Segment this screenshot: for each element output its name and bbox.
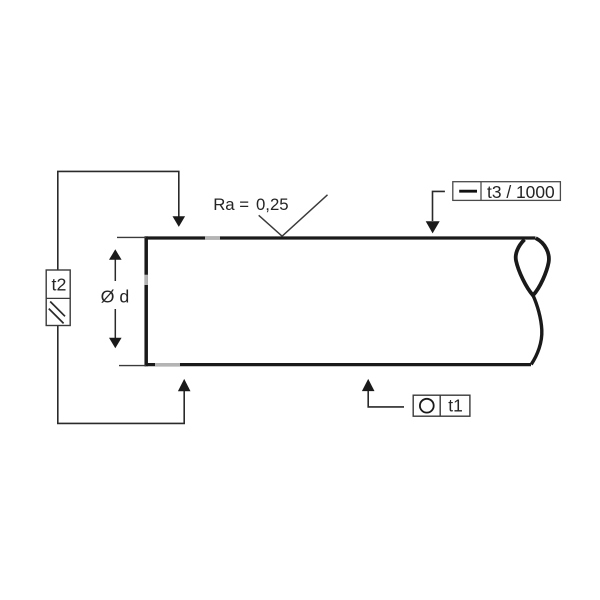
t1 circularity symbol <box>420 399 434 413</box>
t1 leader: up from frame level to bottom surface <box>368 391 404 407</box>
shaft top edge watermark gap <box>205 236 220 239</box>
t2 leader upper arrow <box>173 216 186 227</box>
svg-text:Ra = 0,25: Ra = 0,25 <box>213 195 288 214</box>
break line teardrop loop <box>516 238 549 295</box>
surface roughness symbol right leg <box>282 195 327 236</box>
diameter dimension line upper segment <box>114 259 116 282</box>
surface roughness symbol left leg <box>259 215 282 236</box>
t3 leader: from frame left, down to top surface <box>433 191 445 221</box>
shaft bottom edge <box>145 363 532 366</box>
svg-text:Ø d: Ø d <box>101 287 130 307</box>
svg-text:t2: t2 <box>52 274 67 294</box>
t1 frame divider <box>439 395 441 416</box>
t2 feature control frame box <box>46 270 70 326</box>
shaft bottom edge watermark gap <box>155 363 180 366</box>
t2 leader lower arrow <box>178 379 191 391</box>
extension line top (left of shaft) <box>117 236 146 238</box>
diameter dimension down arrow <box>109 338 122 349</box>
t3 straightness symbol <box>459 190 477 193</box>
t3 frame divider <box>480 182 482 201</box>
shaft left edge <box>144 236 148 366</box>
svg-text:t3 / 1000: t3 / 1000 <box>487 182 555 202</box>
diameter dimension line lower segment <box>114 309 116 339</box>
t2 parallelism symbol line 1 <box>50 302 65 317</box>
break line tail <box>531 295 542 364</box>
shaft top edge <box>145 236 536 239</box>
extension line bottom (left of shaft) <box>119 365 146 367</box>
t1 feature control frame box <box>413 395 470 416</box>
t2 leader lower: from frame bottom, down, over, up to bottom surface <box>58 326 184 424</box>
svg-text:t1: t1 <box>448 396 463 416</box>
t3 leader arrow <box>426 221 440 233</box>
t2 parallelism symbol line 2 <box>49 309 64 324</box>
t3 feature control frame box <box>453 182 561 201</box>
t2 leader upper: from frame top, over, down to top surface <box>58 171 179 270</box>
shaft left edge watermark gap <box>144 275 148 285</box>
t2 frame divider <box>46 297 70 299</box>
t1 leader arrow <box>362 379 375 391</box>
diameter dimension up arrow <box>109 249 122 259</box>
